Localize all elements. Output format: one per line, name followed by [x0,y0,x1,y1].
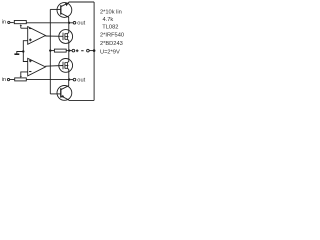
svg-text:TL082: TL082 [102,24,118,30]
node ground junction [22,50,24,52]
node supply junction [68,49,70,51]
mosfet Q3 drain/source/body stubs [65,63,68,69]
wire Q4 base lead [50,93,61,95]
wire bias rail vertical [49,9,51,94]
mosfet Q2 source lead up to out1 [68,24,69,34]
mosfet Q3 IRF540 body [59,59,73,73]
mosfet Q3 body dot [67,65,69,67]
mosfet Q2 drain lead down to supply junction [68,39,69,50]
wire feedback / out1 line [26,22,69,24]
mosfet Q2 body dot [67,36,69,38]
wire bottom supply rail [69,99,94,101]
svg-text:in: in [2,77,6,83]
wire in2 to pot P2 [10,79,15,81]
ground [14,53,19,55]
resistor R1 4.7k [54,49,66,52]
wire op-amp U1a non-inverting input to ground [23,41,27,52]
op-amp U1b plus label [29,60,32,61]
node in1 terminal [8,21,10,23]
wire out2 gap [70,79,73,81]
mosfet Q2 gate bar [62,33,64,41]
svg-text:2*BD243: 2*BD243 [100,41,123,47]
svg-text:2*IRF540: 2*IRF540 [100,32,124,38]
mosfet Q3 channel bar [64,62,66,68]
node battery minus terminal [87,49,90,52]
wire op-amp U1a output to Q2 gate [45,35,63,37]
transistor Q1 emitter to top rail [61,3,69,7]
wire minus terminal to right rail [89,50,94,52]
wire out2 line [26,79,69,81]
mosfet Q3 drain lead up to supply junction [68,51,69,62]
node out2 junction [68,78,70,80]
node out1 junction [68,22,70,24]
node battery plus terminal [72,49,75,52]
svg-text:out: out [77,21,85,27]
transistor Q4 BD243 body [57,86,72,101]
wire resistor R1 to supply junction [66,50,69,52]
wire op-amp U1b inverting input to pot P2 wiper [21,72,28,76]
wire junction to resistor R1 [50,50,54,52]
battery plus label [76,50,79,51]
transistor Q4 emitter to bottom rail [61,96,69,100]
wire ground junction to ground symbol [17,52,24,54]
wire out1 gap [70,22,73,24]
op-amp U1a minus label [29,28,31,29]
potentiometer P1 wiper arrow [20,24,22,26]
op-amp U1b [28,58,46,76]
wire supply junction to plus terminal [69,50,72,52]
potentiometer P1 body [14,21,26,24]
svg-text:U=2*9V: U=2*9V [100,49,120,55]
op-amp U1a [28,27,46,45]
svg-text:out: out [77,78,85,84]
svg-text:4.7k: 4.7k [103,17,114,23]
mosfet Q2 channel bar [64,33,66,39]
potentiometer P2 wiper arrow [20,76,22,78]
node bias rail to resistor junction [49,49,51,51]
wire ground junction to op-amp U1b non-inverting input [23,52,27,62]
mosfet Q2 IRF540 body [59,30,73,44]
mosfet Q3 source lead down to out2 [68,68,69,79]
node right rail junction [93,49,96,52]
transistor Q4 collector to out2 [61,86,69,90]
transistor Q1 BD243 body [57,3,72,18]
node out1 terminal [73,22,76,25]
node out2 terminal [73,78,76,81]
potentiometer P2 body [15,78,27,81]
svg-text:in: in [2,20,6,26]
op-amp U1a plus label [29,39,32,40]
battery minus label [81,50,83,51]
svg-text:2*10k lin: 2*10k lin [100,10,122,16]
wire Q1 base lead [50,8,61,10]
mosfet Q3 gate bar [62,62,64,70]
wire op-amp U1b output to Q3 gate [45,65,63,68]
wire in1 to pot P1 [10,22,14,24]
mosfet Q2 drain/source/body stubs [65,34,68,40]
wire top supply rail [69,1,94,3]
node in2 terminal [7,79,9,81]
transistor Q1 base bar [60,5,62,14]
transistor Q4 base bar [60,88,62,97]
op-amp U1b minus label [29,71,31,72]
transistor Q1 collector to out1 [61,13,69,17]
wire right supply rail [93,2,95,100]
wire P1 wiper to op-amp U1a inverting input [21,27,28,29]
